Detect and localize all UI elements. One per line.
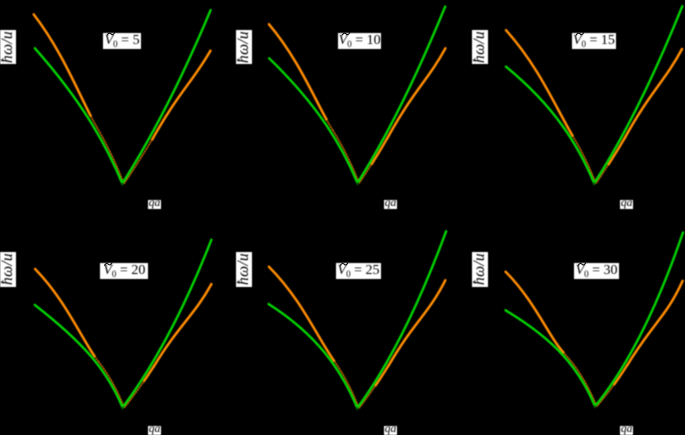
subplot V0=30: orange solid right branch hug part — [614, 365, 627, 385]
y-axis label box row2 col1 — [0, 252, 16, 287]
subplot V0=25: orange solid curve left branch — [269, 267, 334, 361]
subplot V0=20: orange solid right branch hug part — [144, 367, 154, 381]
subplot V0=30: orange dotted upper-left approach — [563, 352, 565, 354]
subplot V0=10: orange dotted upper-left approach — [327, 120, 334, 131]
tilde accent over V of title 20 — [105, 263, 112, 265]
subplot V0=20: orange solid right branch diverging part — [154, 284, 212, 367]
subplot V0=10: green curve V-shape — [269, 7, 445, 183]
subplot V0=30: orange solid right branch diverging part — [628, 281, 683, 365]
x-axis label box qa row2 col3 — [620, 426, 633, 435]
subplot V0=15: orange solid right branch hug part — [609, 139, 625, 165]
title label V0 = 15 — [572, 33, 616, 49]
tilde accent over V of title 25 — [340, 263, 347, 265]
subplot V0=30: orange dotted hug along green right (vertex side) — [597, 385, 614, 407]
y-axis label box row1 col2 — [236, 30, 252, 65]
subplot V0=5: orange solid curve left branch — [34, 14, 91, 116]
y-axis label box row1 col1 — [0, 30, 16, 65]
subplot V0=25: orange solid right branch diverging part — [388, 280, 445, 366]
subplot V0=30: green curve V-shape — [506, 233, 683, 407]
title label V0 = 25 — [336, 263, 381, 279]
x-axis label box qa row1 col2 — [384, 200, 397, 209]
tilde accent over V of title 15 — [576, 33, 583, 35]
subplot V0=30: vertex dim spot — [593, 405, 597, 409]
subplot V0=15: orange solid right branch diverging part — [624, 49, 682, 139]
subplot V0=5: orange dotted hug along green right (vertex side) — [124, 140, 152, 184]
subplot V0=20: orange dotted hug along green left — [99, 362, 125, 408]
subplot V0=20: orange dotted hug along green right (vertex side) — [125, 381, 145, 407]
subplot V0=10: orange solid right branch hug part — [372, 139, 387, 165]
subplot V0=25: orange dotted hug along green right (vertex side) — [359, 386, 375, 408]
subplot V0=5: orange dotted upper-left approach — [91, 116, 98, 128]
subplot V0=15: vertex dim spot — [592, 182, 596, 186]
title label V0 = 20 — [100, 263, 148, 279]
subplot V0=15: orange dotted hug along green right (vertex side) — [596, 165, 608, 184]
subplot V0=30: orange dotted hug along green left — [564, 353, 597, 407]
x-axis label box qa row2 col1 — [148, 426, 161, 435]
subplot V0=5: orange solid right branch diverging part — [152, 51, 210, 140]
subplot V0=10: orange solid curve left branch — [269, 24, 327, 119]
x-axis label box qa row1 col3 — [620, 200, 633, 209]
subplot V0=25: orange solid right branch hug part — [376, 366, 389, 386]
tilde accent over V of title 30 — [578, 263, 585, 265]
subplot V0=25: orange dotted upper-left approach — [333, 360, 336, 363]
subplot V0=15: orange dotted hug along green left — [575, 140, 595, 183]
subplot V0=25: green curve V-shape — [269, 231, 447, 408]
subplot V0=15: orange dotted upper-left approach — [573, 136, 576, 141]
title label V0 = 30 — [574, 263, 619, 279]
y-axis label box row2 col2 — [236, 252, 252, 287]
subplot V0=5: vertex dim spot — [120, 183, 124, 187]
x-axis label box qa row2 col2 — [384, 426, 397, 435]
y-axis label box row1 col3 — [472, 30, 488, 65]
tilde accent over V of title 10 — [342, 33, 349, 35]
subplot V0=10: orange dotted hug along green left — [333, 131, 359, 183]
title label V0 = 10 — [338, 33, 381, 49]
subplot V0=15: green curve V-shape — [506, 6, 682, 183]
subplot V0=20: orange solid curve left branch — [35, 269, 95, 356]
subplot V0=15: orange solid curve left branch — [506, 30, 573, 136]
subplot V0=20: vertex dim spot — [120, 407, 124, 411]
tilde accent over V of title 5 — [107, 33, 114, 35]
title label V0 = 5 — [103, 33, 141, 49]
subplot V0=5: orange dotted hug along green left — [97, 128, 124, 184]
subplot V0=10: orange dotted hug along green right (vertex side) — [359, 164, 371, 183]
y-axis label box row2 col3 — [472, 252, 488, 287]
subplot V0=10: orange solid right branch diverging part — [387, 48, 445, 138]
subplot V0=10: vertex dim spot — [355, 182, 359, 186]
subplot V0=25: vertex dim spot — [355, 407, 359, 411]
subplot V0=20: green curve V-shape — [35, 240, 212, 408]
subplot V0=5: green curve V-shape — [35, 10, 211, 183]
x-axis label box qa row1 col1 — [148, 200, 161, 209]
subplot V0=30: orange solid curve left branch — [506, 272, 564, 353]
subplot V0=25: orange dotted hug along green left — [335, 361, 359, 408]
subplot V0=20: orange dotted upper-left approach — [95, 356, 99, 362]
